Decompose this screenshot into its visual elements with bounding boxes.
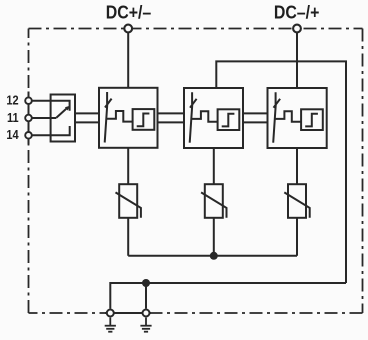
svg-text:14: 14 (6, 128, 19, 142)
module 1 disconnector (105, 92, 112, 143)
terminal 11 lead (32, 117, 56, 119)
wire: varistor bus (128, 255, 297, 257)
module 2 disconnector (190, 92, 197, 143)
module 1 response waveform (106, 111, 132, 122)
wire: module 3 to varistor 3 (296, 148, 298, 184)
terminal circle 11 (25, 115, 32, 122)
module 3 disconnector (273, 92, 280, 143)
ground symbol 1 (105, 318, 116, 332)
wire: varistor 3 down to varistor bus (296, 218, 298, 256)
protection module 1 (thermal disconnector + trigger device) (99, 88, 158, 148)
ground terminal 1 circle (107, 310, 114, 317)
link wires module 1 to module 2 (158, 113, 185, 122)
wire: varistor 2 down to varistor bus (213, 218, 215, 256)
junction: varistor bus / varistor 2 (210, 252, 218, 260)
wire: solid border segment through terminals 12/11/14 (28, 92, 30, 145)
varistor RV3 (284, 184, 309, 218)
terminal circle DC-/+ (293, 25, 301, 33)
wire: module 1 to varistor 1 (127, 148, 129, 184)
remote contact K: box (51, 95, 75, 142)
svg-text:DC+/–: DC+/– (106, 1, 152, 22)
module 3 response waveform (275, 111, 301, 122)
svg-text:11: 11 (7, 111, 19, 125)
wire: varistor 1 down to varistor bus (127, 218, 129, 256)
module 3 box (268, 88, 327, 148)
enclosure border (dash-dot) (29, 29, 363, 314)
varistor RV1 (116, 184, 141, 218)
pin label 11 (7, 111, 19, 125)
module 1 trigger square (133, 109, 155, 130)
link wires module 2 to module 3 (243, 113, 268, 122)
pin label 14 (6, 128, 19, 142)
terminal 12 lead (32, 101, 69, 111)
wire: top bus from module 2 up and across to right side, down to bottom bus (216, 61, 346, 283)
terminal circle DC+/- (124, 25, 132, 33)
link wires K to module 1 (75, 113, 99, 122)
ground symbol 2 (140, 318, 151, 332)
ground terminal 2 circle (143, 310, 150, 317)
svg-text:DC–/+: DC–/+ (274, 1, 320, 22)
wire: bottom bus to ground terminal 1 (110, 283, 346, 309)
module 1 box (99, 88, 158, 148)
remote contact K: blade arrowhead (65, 106, 70, 111)
terminal circle 12 (25, 97, 32, 104)
wire: module 2 to varistor 2 (213, 148, 215, 184)
svg-text:12: 12 (6, 94, 19, 108)
wire: branch to ground terminal 2 (145, 283, 147, 309)
wire: DC-/+ drop to module 3 (296, 33, 298, 88)
module 3 step symbol (305, 114, 318, 127)
terminal circle 14 (25, 132, 32, 139)
protection module 2 (thermal disconnector + trigger device) (184, 88, 243, 148)
module 2 response waveform (191, 111, 217, 122)
module 1 step symbol (137, 114, 150, 127)
label DC-/+ (274, 1, 320, 22)
module 2 step symbol (222, 114, 235, 127)
module 3 trigger square (301, 109, 323, 130)
wire: solid border segment between ground terminals (105, 312, 151, 314)
junction: bottom bus / ground 2 (142, 279, 150, 287)
pin label 12 (6, 94, 19, 108)
module 2 box (184, 88, 243, 148)
varistor RV2 (201, 184, 226, 218)
wire: DC+/- drop to module 1 (127, 33, 129, 88)
protection module 3 (thermal disconnector + trigger device) (268, 88, 327, 148)
terminal 14 lead (32, 126, 69, 135)
module 2 trigger square (218, 109, 240, 130)
remote contact K: switch blade (56, 108, 67, 118)
label DC+/- (106, 1, 152, 22)
